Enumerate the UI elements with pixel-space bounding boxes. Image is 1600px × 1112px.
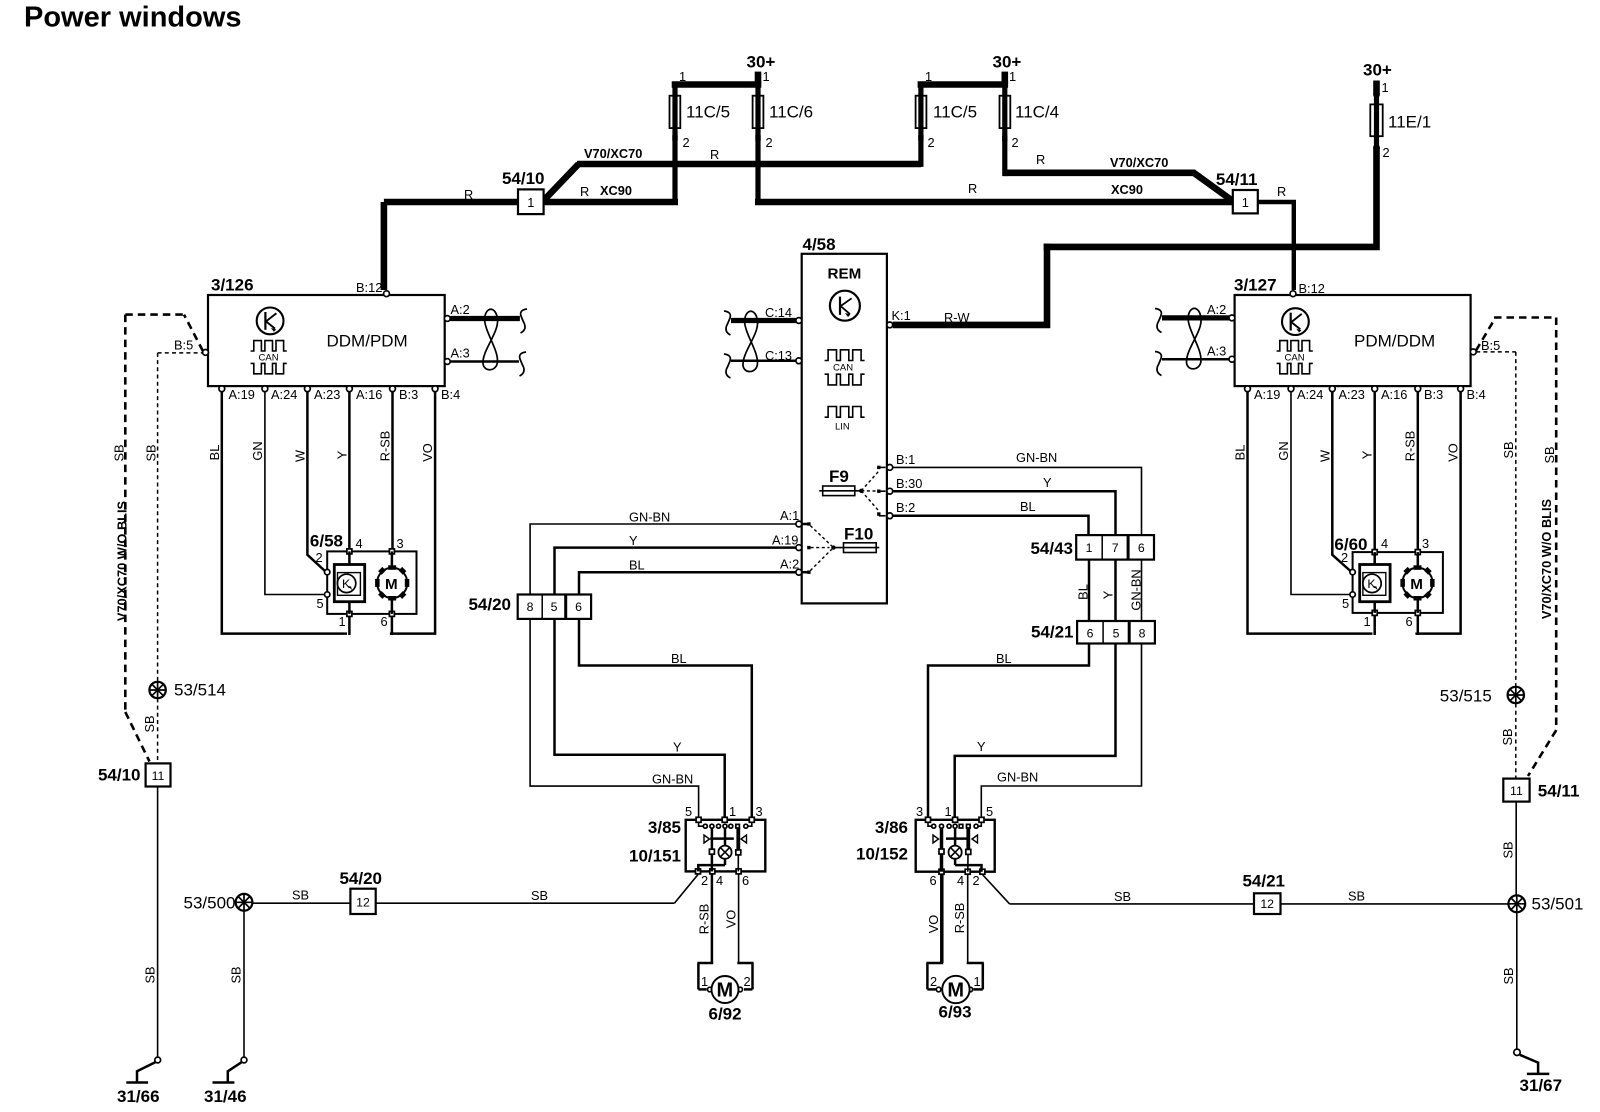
- wire SB (54/21 to splice 53/501): [1281, 889, 1510, 904]
- window switch 3/85 10/151: [629, 804, 765, 888]
- svg-text:7: 7: [1112, 541, 1119, 555]
- wire SB (3/86 pin 2 to 54/21): [982, 875, 1254, 905]
- svg-text:30+: 30+: [1363, 61, 1392, 80]
- svg-text:1: 1: [763, 69, 770, 84]
- svg-text:54/20: 54/20: [339, 869, 382, 888]
- svg-text:3: 3: [1422, 536, 1429, 551]
- svg-text:SB: SB: [1348, 889, 1365, 904]
- svg-text:SB: SB: [1542, 446, 1557, 463]
- svg-text:SB: SB: [1501, 441, 1516, 458]
- wire R-SB (3/86 pin 4 to motor 6/93): [952, 874, 968, 963]
- svg-text:XC90: XC90: [600, 183, 632, 198]
- svg-text:R: R: [464, 187, 473, 202]
- module icon K (3/127): [1282, 308, 1309, 335]
- svg-text:SB: SB: [143, 966, 158, 983]
- connector 54/21 (pins 6 5 8): [1031, 621, 1155, 644]
- svg-text:1: 1: [974, 974, 981, 989]
- wire GN-BN (54/20 to 3/85 pin 5): [530, 619, 699, 820]
- svg-text:6: 6: [575, 600, 582, 614]
- svg-text:3: 3: [916, 804, 923, 819]
- svg-text:11C/5: 11C/5: [933, 103, 977, 122]
- svg-text:BL: BL: [996, 651, 1012, 666]
- svg-text:V70/XC70 W/O BLIS: V70/XC70 W/O BLIS: [1539, 498, 1554, 619]
- connector 54/11 (inline, pin 11): [1503, 779, 1579, 802]
- pin B:12 of 3/127: [1290, 281, 1325, 297]
- switch contacts row (3/85): [699, 822, 752, 828]
- fuse 11C/6: [753, 85, 814, 203]
- svg-text:SB: SB: [1500, 728, 1515, 745]
- CAN symbol (3/127): [1277, 341, 1313, 374]
- wire Y (54/20 to 3/85 pin 1): [555, 619, 725, 820]
- svg-text:CAN: CAN: [259, 353, 279, 364]
- splice 53/515: [1440, 687, 1524, 706]
- svg-text:Y: Y: [335, 450, 350, 459]
- svg-text:REM: REM: [828, 266, 862, 283]
- central electronic module 4/58 REM: [802, 235, 887, 603]
- fuse 11C/5 (left): [670, 85, 731, 203]
- svg-text:K: K: [1367, 577, 1376, 591]
- svg-text:1: 1: [945, 804, 952, 819]
- svg-text:R: R: [580, 184, 589, 199]
- svg-text:VO: VO: [1446, 443, 1461, 462]
- wire BL (REM A:2 to 54/20 pin 6): [579, 558, 796, 595]
- motor M inside 6/60: [1400, 552, 1434, 613]
- svg-text:11C/4: 11C/4: [1015, 103, 1059, 122]
- svg-text:5: 5: [986, 804, 993, 819]
- wire BL (3/127 A:19 to 6/60 pin 1): [1233, 392, 1373, 634]
- fuse F9 inside REM: [819, 466, 885, 516]
- wire VO (3/127 B:4 to 6/60 pin 6): [1415, 392, 1460, 634]
- svg-text:CAN: CAN: [1285, 353, 1305, 364]
- wire GN-BN (54/21 to 3/86 pin 5): [981, 644, 1141, 820]
- svg-text:GN-BN: GN-BN: [652, 772, 693, 787]
- svg-text:31/66: 31/66: [117, 1087, 160, 1106]
- connector 54/20 (inline, pin 12): [339, 869, 382, 914]
- wire R-SB (3/126 B:3 to 6/58 pin 3): [378, 392, 393, 552]
- svg-text:10/152: 10/152: [856, 845, 908, 864]
- svg-text:1: 1: [1009, 69, 1016, 84]
- connector 54/11 (inline, pin 1): [1110, 155, 1258, 213]
- wire SB (53/501 to ground 31/67): [1501, 912, 1517, 1049]
- wire R-SB (3/85 pin 4 to motor 6/92): [697, 874, 712, 963]
- splice 53/514: [149, 681, 226, 700]
- fuse 11C/4: [1000, 85, 1060, 177]
- svg-text:11: 11: [1510, 784, 1523, 798]
- wire GN (3/126 A:24 to 6/58 pin 5): [250, 392, 325, 595]
- wire R-W from REM K:1: [893, 244, 1047, 325]
- connector 54/20 (pins 8 5 6): [468, 595, 591, 619]
- wire BL (54/21 to 3/86 pin 3): [928, 644, 1089, 820]
- svg-text:6: 6: [742, 873, 749, 888]
- svg-text:31/46: 31/46: [204, 1087, 247, 1106]
- svg-text:1: 1: [1364, 614, 1371, 629]
- module icon K (3/126): [257, 308, 284, 335]
- svg-text:11C/6: 11C/6: [769, 103, 813, 122]
- wire loop 6/58 pin1 bottom: [349, 614, 392, 635]
- svg-text:SB: SB: [1501, 967, 1516, 984]
- pin A:2 of REM: [780, 557, 802, 576]
- svg-text:2: 2: [928, 135, 935, 150]
- svg-text:R: R: [710, 147, 719, 162]
- svg-text:BL: BL: [207, 445, 222, 461]
- twisted-pair symbol (REM C:14/C:13): [724, 311, 758, 378]
- svg-text:R: R: [1277, 184, 1286, 199]
- svg-text:F10: F10: [844, 525, 873, 544]
- svg-text:Y: Y: [1043, 475, 1052, 490]
- svg-text:1: 1: [339, 614, 346, 629]
- pins A:19..B:4 of 3/126: [219, 386, 460, 402]
- svg-text:30+: 30+: [747, 53, 776, 72]
- svg-text:3/126: 3/126: [211, 276, 254, 295]
- svg-text:6: 6: [381, 614, 388, 629]
- svg-text:2: 2: [316, 550, 323, 565]
- svg-text:SB: SB: [1114, 889, 1131, 904]
- svg-text:A:19: A:19: [229, 387, 255, 402]
- svg-text:10/151: 10/151: [629, 847, 681, 866]
- CAN symbol (REM): [825, 350, 865, 385]
- CAN symbol (3/126): [251, 341, 287, 374]
- svg-text:VO: VO: [420, 443, 435, 462]
- svg-text:V70/XC70: V70/XC70: [1110, 155, 1168, 170]
- svg-text:R: R: [968, 181, 977, 196]
- wire R to DDM/PDM B:12: [381, 202, 388, 290]
- svg-text:2: 2: [930, 974, 937, 989]
- pin A:19 of REM: [772, 533, 802, 551]
- svg-text:6: 6: [1087, 627, 1094, 641]
- svg-text:GN: GN: [1276, 441, 1291, 460]
- svg-text:B:4: B:4: [1467, 387, 1486, 402]
- svg-text:8: 8: [527, 600, 534, 614]
- svg-text:11: 11: [152, 769, 165, 783]
- svg-text:53/501: 53/501: [1532, 895, 1584, 914]
- wire GN-BN (54/43 to 54/21): [1129, 560, 1144, 621]
- wire BL (54/20 to 3/85 pin 3): [579, 619, 752, 820]
- wire Y (3/127 A:16 to 6/60 pin 4): [1360, 392, 1375, 552]
- svg-text:M: M: [1410, 576, 1423, 593]
- svg-text:53/515: 53/515: [1440, 687, 1492, 706]
- svg-text:A:1: A:1: [780, 508, 799, 523]
- svg-text:R-W: R-W: [944, 310, 971, 325]
- wire BL (54/43 to 54/21): [1076, 560, 1091, 621]
- svg-text:BL: BL: [671, 651, 687, 666]
- svg-text:A:19: A:19: [1254, 387, 1280, 402]
- svg-text:C:14: C:14: [765, 305, 792, 320]
- wire W (3/127 A:23 to 6/60 pin 2): [1318, 392, 1352, 572]
- svg-text:4: 4: [356, 536, 363, 551]
- module K box inside 6/60: [1360, 552, 1390, 613]
- pin B:5 of 3/126 (dashed SB feeds): [125, 315, 208, 356]
- svg-text:SB: SB: [142, 715, 157, 732]
- svg-text:F9: F9: [829, 467, 849, 486]
- wire V70/XC70 bus (right, R): [1005, 152, 1233, 201]
- svg-text:SB: SB: [292, 888, 309, 903]
- illumination lamp (3/85): [698, 846, 731, 872]
- svg-text:B:1: B:1: [896, 452, 915, 467]
- wire BL (REM B:2 to 54/43 pin 1): [893, 499, 1089, 535]
- pin B:1 of REM: [887, 452, 915, 470]
- switch contacts row (3/86): [928, 822, 981, 828]
- svg-text:Y: Y: [1101, 590, 1116, 599]
- power feed 30+ (left pair): [747, 53, 776, 85]
- svg-text:3: 3: [756, 804, 763, 819]
- svg-text:2: 2: [683, 135, 690, 150]
- svg-text:8: 8: [1139, 627, 1146, 641]
- pin C:14 of REM with twisted pair: [731, 305, 802, 323]
- svg-text:4: 4: [1381, 536, 1388, 551]
- svg-text:1: 1: [701, 974, 708, 989]
- svg-text:6: 6: [930, 873, 937, 888]
- svg-text:R-SB: R-SB: [952, 903, 967, 934]
- svg-text:4/58: 4/58: [803, 235, 836, 254]
- svg-text:BL: BL: [1076, 584, 1091, 600]
- svg-text:6: 6: [1406, 614, 1413, 629]
- dashed wire SB from splice to 54/10: [142, 698, 158, 763]
- svg-text:LIN: LIN: [835, 422, 850, 433]
- wire Y (3/126 A:16 to 6/58 pin 4): [335, 392, 350, 552]
- LIN symbol (REM): [825, 407, 865, 433]
- svg-text:V70/XC70: V70/XC70: [584, 146, 642, 161]
- wire Y (54/21 to 3/86 pin 1): [955, 644, 1116, 820]
- svg-text:PDM/DDM: PDM/DDM: [1354, 331, 1435, 350]
- wire SB (54/11 to splice 53/501): [1501, 802, 1517, 897]
- wire Y (REM A:19 to 54/20 pin 5): [555, 533, 796, 595]
- ground 31/67: [1514, 1049, 1562, 1095]
- svg-text:54/10: 54/10: [98, 766, 141, 785]
- svg-text:B:12: B:12: [1299, 281, 1325, 296]
- dashed wire SB from splice to 54/11: [1500, 704, 1516, 779]
- svg-text:BL: BL: [629, 558, 645, 573]
- svg-text:GN-BN: GN-BN: [997, 770, 1038, 785]
- wire R-SB (3/127 B:3 to 6/60 pin 3): [1403, 392, 1418, 552]
- svg-text:A:24: A:24: [1297, 387, 1323, 402]
- svg-text:30+: 30+: [993, 53, 1022, 72]
- svg-text:R-SB: R-SB: [378, 431, 393, 462]
- svg-text:11E/1: 11E/1: [1388, 113, 1431, 132]
- pin B:30 of REM: [887, 476, 922, 494]
- svg-text:B:5: B:5: [1481, 338, 1500, 353]
- svg-text:Y: Y: [629, 533, 638, 548]
- wire V70/XC70 bus (left, R): [577, 146, 921, 164]
- svg-text:1: 1: [1242, 195, 1249, 210]
- svg-text:W: W: [293, 449, 308, 462]
- svg-text:A:23: A:23: [314, 387, 340, 402]
- svg-text:W: W: [1318, 449, 1333, 462]
- svg-text:5: 5: [317, 596, 324, 611]
- control module 3/126 DDM/PDM: [208, 276, 445, 387]
- svg-text:2: 2: [1012, 135, 1019, 150]
- svg-text:6/93: 6/93: [939, 1003, 972, 1022]
- svg-text:6/58: 6/58: [310, 532, 343, 551]
- svg-text:SB: SB: [531, 888, 548, 903]
- wire SB (53/500 to ground 31/46): [229, 911, 245, 1058]
- svg-text:V70/XC70 W/O BLIS: V70/XC70 W/O BLIS: [115, 500, 130, 621]
- pin B:12 of 3/126: [356, 280, 389, 297]
- pin K:1 of REM: [887, 308, 911, 328]
- svg-text:54/11: 54/11: [1538, 782, 1580, 801]
- svg-text:53/514: 53/514: [174, 681, 226, 700]
- module K box inside 6/58: [334, 551, 364, 614]
- svg-text:M: M: [385, 576, 398, 593]
- svg-text:XC90: XC90: [1111, 182, 1143, 197]
- svg-text:4: 4: [957, 873, 964, 888]
- svg-text:Y: Y: [1360, 450, 1375, 459]
- connector 54/10 (inline, pin 1): [384, 164, 579, 214]
- wire BL (3/126 A:19 to 6/58 pin 1): [207, 392, 347, 634]
- switch mechanism (3/85): [704, 828, 747, 872]
- pin C:13 of REM with twisted pair: [731, 348, 802, 364]
- wire R-W from 11E/1 down and left to REM K:1 riser: [1044, 148, 1377, 247]
- svg-text:DDM/PDM: DDM/PDM: [327, 331, 408, 350]
- svg-text:5: 5: [551, 600, 558, 614]
- wire GN-BN (REM B:1 to 54/43 pin 6): [893, 450, 1142, 535]
- svg-text:2: 2: [1341, 550, 1348, 565]
- wire R from 54/11 to PDM/DDM B:12: [1258, 184, 1294, 290]
- svg-text:2: 2: [1383, 145, 1390, 160]
- svg-text:1: 1: [925, 69, 932, 84]
- wire SB (54/20 to splice 53/500): [252, 888, 350, 904]
- svg-text:11C/5: 11C/5: [686, 103, 730, 122]
- wire Y (54/43 to 54/21): [1101, 560, 1116, 621]
- pin A:1 of REM: [780, 508, 802, 527]
- wire XC90 bus (right of 11C/6, R): [755, 181, 1233, 202]
- window lift motor unit 6/58: [310, 532, 417, 630]
- module icon K transistor (REM): [830, 291, 860, 321]
- svg-text:B:12: B:12: [356, 280, 382, 295]
- pin B:2 of REM: [887, 500, 915, 519]
- svg-text:3/127: 3/127: [1234, 276, 1277, 295]
- twisted-pair symbol (3/126 A:2/A:3): [483, 309, 527, 376]
- svg-text:A:19: A:19: [772, 533, 798, 548]
- connector 54/10 (inline, pin 11): [98, 763, 171, 786]
- svg-text:5: 5: [685, 804, 692, 819]
- connector 54/21 (inline, pin 12): [1242, 872, 1285, 915]
- svg-text:A:3: A:3: [1207, 344, 1226, 359]
- pins A:19..B:4 of 3/127: [1245, 386, 1486, 402]
- svg-text:GN-BN: GN-BN: [1016, 450, 1057, 465]
- svg-text:VO: VO: [926, 915, 941, 934]
- svg-text:R-SB: R-SB: [1403, 431, 1418, 462]
- svg-text:Power windows: Power windows: [24, 2, 242, 34]
- dashed wire SB V70/XC70 W/O BLIS (left): [112, 315, 150, 762]
- pin A:3 of 3/127 with twisted pair: [1162, 344, 1235, 363]
- svg-text:2: 2: [701, 873, 708, 888]
- dashed wire SB (left fine): [144, 353, 159, 682]
- wire W (3/126 A:23 to 6/58 pin 2): [293, 392, 326, 572]
- svg-text:53/500: 53/500: [184, 894, 236, 913]
- svg-text:3/85: 3/85: [648, 818, 681, 837]
- connector 54/43 (pins 1 7 6): [1030, 535, 1154, 560]
- svg-text:SB: SB: [1501, 841, 1516, 858]
- svg-text:1: 1: [527, 195, 534, 210]
- svg-text:A:23: A:23: [1339, 387, 1365, 402]
- wire jumper fuse 11C/5 to 11C/6 pin 1: [672, 69, 770, 85]
- pin B:5 of 3/127 (dashed SB feeds): [1470, 318, 1556, 355]
- svg-text:R-SB: R-SB: [697, 904, 712, 935]
- dashed wire SB V70/XC70 W/O BLIS (right): [1528, 318, 1557, 777]
- svg-text:6: 6: [1138, 541, 1145, 555]
- window motor 6/92: [697, 963, 753, 1024]
- ground 31/66: [117, 1057, 161, 1106]
- svg-text:A:2: A:2: [451, 302, 470, 317]
- wire GN (3/127 A:24 to 6/60 pin 5): [1276, 392, 1350, 595]
- svg-text:K:1: K:1: [892, 308, 911, 323]
- svg-text:12: 12: [1260, 897, 1274, 911]
- svg-text:A:3: A:3: [451, 346, 470, 361]
- svg-text:54/10: 54/10: [502, 169, 545, 188]
- svg-text:2: 2: [766, 135, 773, 150]
- svg-text:BL: BL: [1020, 499, 1036, 514]
- svg-text:54/11: 54/11: [1216, 170, 1258, 189]
- svg-text:54/21: 54/21: [1242, 872, 1285, 891]
- svg-text:1: 1: [679, 69, 686, 84]
- power feed 30+ (11E/1): [1363, 61, 1392, 95]
- svg-text:31/67: 31/67: [1520, 1076, 1563, 1095]
- power feed 30+ (right pair): [993, 53, 1022, 85]
- switch mechanism (3/86): [933, 828, 978, 872]
- svg-text:A:24: A:24: [271, 387, 297, 402]
- window lift motor unit 6/60: [1334, 535, 1442, 629]
- wire VO (3/86 pin 6 to motor 6/93): [926, 874, 942, 963]
- fuse 11C/5 (right): [916, 85, 978, 167]
- svg-text:3: 3: [397, 536, 404, 551]
- svg-text:54/43: 54/43: [1030, 539, 1073, 558]
- wire XC90 bus (left, R): [544, 183, 678, 202]
- splice 53/501: [1508, 895, 1583, 914]
- svg-text:A:2: A:2: [780, 557, 799, 572]
- svg-text:B:3: B:3: [1424, 387, 1443, 402]
- svg-text:B:5: B:5: [174, 338, 193, 353]
- svg-text:SB: SB: [229, 966, 244, 983]
- svg-text:B:3: B:3: [399, 387, 418, 402]
- svg-text:Y: Y: [977, 739, 986, 754]
- wire VO (3/85 pin 6 to motor 6/92): [724, 874, 739, 963]
- svg-text:A:2: A:2: [1207, 302, 1226, 317]
- svg-text:Y: Y: [673, 740, 682, 755]
- svg-text:CAN: CAN: [833, 363, 853, 374]
- svg-text:GN-BN: GN-BN: [629, 510, 670, 525]
- svg-text:3/86: 3/86: [875, 818, 908, 837]
- fuse 11E/1: [1370, 80, 1431, 160]
- svg-text:1: 1: [1086, 541, 1093, 555]
- pin A:3 of 3/126 with twisted pair: [444, 346, 519, 365]
- wire VO (3/126 B:4 to 6/58 pin 6): [390, 392, 435, 634]
- pin A:2 of 3/127 with twisted pair: [1162, 302, 1235, 321]
- splice 53/500: [184, 894, 253, 913]
- svg-text:K: K: [342, 577, 351, 591]
- wire SB (3/85 pin 2 to splice 53/500): [376, 875, 698, 904]
- window switch 3/86 10/152: [856, 804, 995, 888]
- twisted-pair symbol (3/127 A:2/A:3): [1155, 308, 1201, 375]
- svg-text:5: 5: [1113, 627, 1120, 641]
- svg-text:GN-BN: GN-BN: [1129, 569, 1144, 610]
- motor M inside 6/58: [375, 551, 409, 614]
- svg-text:1: 1: [729, 804, 736, 819]
- svg-text:54/21: 54/21: [1031, 623, 1074, 642]
- svg-text:5: 5: [1342, 596, 1349, 611]
- svg-text:2: 2: [973, 873, 980, 888]
- svg-text:B:2: B:2: [896, 500, 915, 515]
- svg-text:M: M: [947, 980, 964, 1002]
- svg-text:12: 12: [356, 896, 370, 910]
- illumination lamp (3/86): [949, 846, 982, 872]
- svg-text:B:30: B:30: [896, 476, 922, 491]
- svg-text:SB: SB: [112, 444, 127, 461]
- svg-text:54/20: 54/20: [468, 595, 511, 614]
- svg-text:GN: GN: [250, 441, 265, 460]
- svg-text:BL: BL: [1233, 445, 1248, 461]
- svg-text:A:16: A:16: [1381, 387, 1407, 402]
- wire jumper fuse 11C/5 to 11C/4 pin 1: [918, 69, 1017, 85]
